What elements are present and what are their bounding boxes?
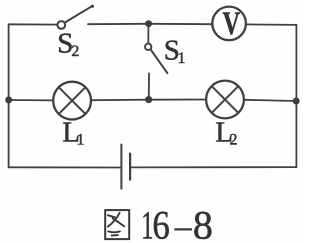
- voltmeter U1 circle: [212, 7, 246, 41]
- switch S1 upper stub: [147, 24, 149, 44]
- wire top-left segment: [9, 23, 58, 25]
- wire bottom-left to battery: [9, 166, 121, 168]
- wire voltmeter to top-right corner: [246, 23, 297, 26]
- node right middle: [293, 98, 300, 105]
- lamp L2 cross: [212, 86, 239, 113]
- svg-text:L2: L2: [215, 117, 237, 149]
- caption hanzi TU (figure) drawn: [105, 210, 129, 239]
- wire L1 to middle node: [91, 99, 149, 102]
- svg-text:S2: S2: [57, 27, 79, 60]
- battery long plate: [120, 145, 122, 189]
- switch S2 lever tip: [91, 5, 94, 8]
- switch S2 lever: [65, 6, 93, 23]
- svg-text:L1: L1: [62, 117, 84, 149]
- lamp L2 circle: [206, 81, 244, 119]
- wire middle node to L2: [149, 99, 206, 101]
- wire top middle to voltmeter: [149, 23, 213, 25]
- node left middle: [5, 96, 12, 103]
- battery short plate: [129, 154, 131, 180]
- wire right rail: [295, 25, 297, 167]
- svg-text:8: 8: [193, 202, 213, 243]
- svg-text:6: 6: [152, 204, 169, 243]
- lamp L1 circle: [53, 82, 91, 120]
- switch S1 lever: [151, 49, 168, 73]
- switch S1 pivot: [145, 44, 151, 50]
- wire L2 to right rail: [244, 100, 296, 101]
- wire middle-left segment: [9, 99, 54, 101]
- node top junction: [145, 20, 152, 27]
- switch S2 fixed contact wire: [88, 23, 149, 25]
- lamp L1 cross: [59, 87, 86, 114]
- caption dash: [174, 228, 192, 230]
- switch S2 pivot: [57, 21, 65, 29]
- svg-text:V: V: [223, 6, 241, 43]
- wire battery to bottom-right: [131, 166, 296, 168]
- switch S1 lower stub: [148, 73, 150, 96]
- svg-text:S1: S1: [164, 35, 186, 68]
- wire left rail: [8, 24, 10, 167]
- node center middle: [145, 96, 152, 103]
